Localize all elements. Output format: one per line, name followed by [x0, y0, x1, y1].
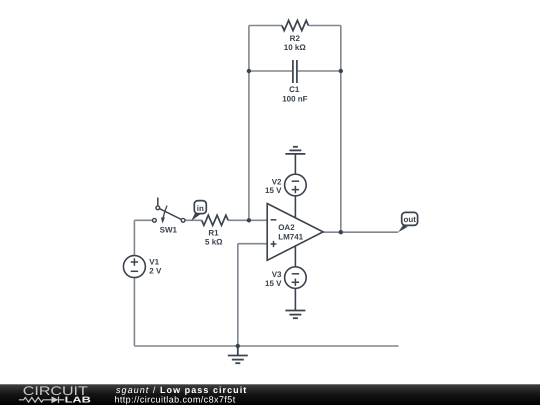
SW1 top terminal circle: [156, 206, 160, 210]
wire: C1 right lead: [298, 70, 341, 72]
V3 bottom pin to ground: [294, 288, 296, 310]
junction: R1/minus-input/feedback node: [247, 218, 251, 222]
wire: V1 bottom vertical to bottom rail: [133, 278, 135, 347]
junction: plus-vertical to bottom rail: [236, 344, 240, 348]
junction: C1 right: [339, 69, 343, 73]
junction: output/feedback node: [339, 230, 343, 234]
svg-text:http://circuitlab.com/c8x7f5t: http://circuitlab.com/c8x7f5t: [114, 395, 235, 405]
V2 top pin to ground: [294, 154, 296, 174]
svg-text:SW1: SW1: [160, 226, 178, 235]
wire: SW1 right terminal to R1: [185, 219, 202, 221]
svg-text:2 V: 2 V: [149, 266, 162, 275]
wire: R1 to op-amp minus input: [228, 219, 267, 221]
node flag: in: [191, 201, 206, 221]
C1 left plate: [292, 60, 294, 83]
wire: V1 top vertical: [133, 220, 135, 256]
V2 circle: [285, 174, 307, 196]
svg-text:V2: V2: [272, 177, 282, 186]
wire: top horizontal right segment from R2: [308, 25, 340, 27]
wire: feedback right vertical to output junction: [340, 26, 342, 233]
in flag box: [194, 201, 206, 214]
svg-text:LAB: LAB: [65, 394, 91, 404]
SW1 lever: [160, 209, 182, 220]
wire: feedback left vertical (node in to top loop): [248, 26, 250, 221]
voltage source V3 (15 V): [265, 246, 306, 311]
svg-text:in: in: [197, 204, 204, 213]
out flag box: [402, 212, 418, 225]
svg-text:R1: R1: [208, 229, 219, 238]
svg-text:V1: V1: [149, 258, 159, 267]
ground: below V3: [285, 311, 305, 319]
OA2 minus input symbol: [271, 219, 277, 221]
R2 zigzag: [282, 20, 308, 30]
out flag tail: [398, 225, 408, 232]
resistor R2: [282, 20, 308, 52]
junction: C1 left: [247, 69, 251, 73]
R1 zigzag: [202, 215, 228, 225]
C1 right plate: [296, 60, 298, 83]
svg-text:out: out: [403, 215, 416, 224]
svg-text:LM741: LM741: [278, 232, 303, 241]
capacitor C1: [282, 60, 307, 104]
SW1 left terminal circle: [153, 218, 157, 222]
wire: op-amp output to out flag: [323, 231, 398, 233]
V2 bottom pin to op-amp: [294, 196, 296, 218]
svg-text:100 nF: 100 nF: [282, 95, 307, 104]
svg-text:15 V: 15 V: [265, 279, 282, 288]
svg-text:OA2: OA2: [278, 223, 295, 232]
wire: top horizontal left segment to R2: [249, 25, 282, 27]
wire: op-amp plus input horizontal: [238, 243, 267, 245]
V1 circle: [123, 256, 145, 278]
V3 circle: [285, 267, 307, 289]
V3 minus sign: [292, 273, 299, 275]
resistor R1: [202, 215, 228, 246]
wire: bottom ground rail: [134, 345, 398, 347]
svg-text:V3: V3: [272, 270, 282, 279]
svg-text:10 kΩ: 10 kΩ: [284, 43, 307, 52]
svg-text:R2: R2: [290, 34, 301, 43]
CircuitLab logo: resistor-diode squiggle: [19, 397, 64, 404]
in flag tail: [191, 212, 200, 221]
OA2 plus input symbol: [271, 241, 277, 247]
voltage source V1 (2 V): [123, 256, 162, 278]
V1 minus sign: [131, 270, 138, 272]
ground: bottom rail ground: [228, 346, 248, 363]
ground: inverted ground above V2: [285, 147, 305, 154]
SW1 actuation arrow: [163, 206, 167, 218]
wire: C1 left lead: [249, 70, 292, 72]
V2 minus sign: [292, 180, 299, 182]
node flag: out: [398, 212, 418, 232]
voltage source V2 (15 V): [265, 154, 306, 218]
V2 plus sign: [292, 186, 299, 193]
switch SW1: [153, 198, 186, 235]
svg-text:5 kΩ: 5 kΩ: [205, 238, 223, 247]
V1 plus sign: [131, 258, 138, 265]
op-amp OA2 LM741: [267, 204, 323, 261]
V3 top pin to op-amp: [294, 246, 296, 267]
V3 plus sign: [292, 279, 299, 286]
OA2 triangle body: [267, 204, 323, 261]
SW1 top throw stub: [157, 198, 159, 206]
svg-text:C1: C1: [289, 85, 300, 94]
svg-text:sgaunt / Low pass circuit: sgaunt / Low pass circuit: [116, 385, 247, 395]
svg-text:15 V: 15 V: [265, 186, 282, 195]
SW1 right terminal circle: [181, 218, 185, 222]
wire: plus input vertical down to rail: [237, 244, 239, 346]
wire: left horizontal from V1 corner to SW1 left terminal: [134, 219, 152, 221]
